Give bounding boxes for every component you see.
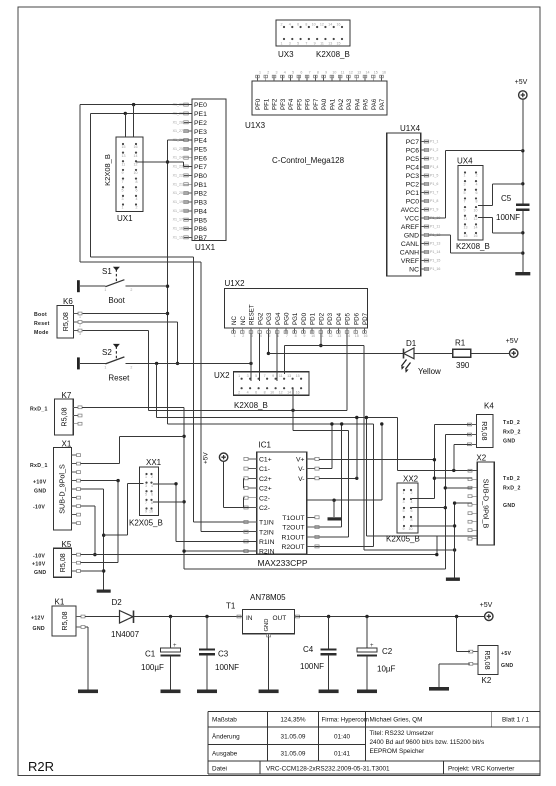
svg-text:PB6: PB6 <box>194 226 207 233</box>
svg-text:11: 11 <box>320 42 324 46</box>
svg-text:-10V: -10V <box>33 505 45 511</box>
svg-text:C3: C3 <box>218 650 229 659</box>
svg-text:15: 15 <box>296 374 300 378</box>
svg-text:PE3: PE3 <box>194 129 207 136</box>
svg-text:2: 2 <box>79 324 81 328</box>
svg-text:+5V: +5V <box>515 79 528 86</box>
svg-text:PB4: PB4 <box>194 208 207 215</box>
svg-text:PE4: PE4 <box>194 138 207 145</box>
svg-text:2400 Bd auf 9600 bit/s bzw. 11: 2400 Bd auf 9600 bit/s bzw. 115200 bit/s <box>370 739 485 746</box>
svg-text:5: 5 <box>145 492 147 496</box>
svg-text:6: 6 <box>255 391 257 395</box>
svg-text:PG1: PG1 <box>292 312 299 325</box>
svg-text:PE5: PE5 <box>194 146 207 153</box>
svg-text:4: 4 <box>284 71 286 75</box>
svg-text:12: 12 <box>320 23 324 27</box>
svg-text:4: 4 <box>289 23 291 27</box>
svg-text:2: 2 <box>238 391 240 395</box>
svg-text:V-: V- <box>298 476 304 483</box>
svg-text:PC5: PC5 <box>406 156 419 163</box>
svg-text:P1_3: P1_3 <box>430 157 438 161</box>
svg-text:K2X05_B: K2X05_B <box>129 519 163 528</box>
svg-text:01:40: 01:40 <box>334 734 350 741</box>
svg-text:AREF: AREF <box>401 224 419 231</box>
svg-text:PE0: PE0 <box>194 102 207 109</box>
svg-text:Änderung: Änderung <box>212 733 240 741</box>
svg-text:R5,08: R5,08 <box>480 421 489 440</box>
svg-text:K2X08_B: K2X08_B <box>316 50 350 59</box>
svg-text:+: + <box>370 643 374 649</box>
svg-text:2: 2 <box>151 475 153 479</box>
svg-text:13: 13 <box>357 71 361 75</box>
svg-text:Datei: Datei <box>212 765 227 772</box>
svg-text:RxD_2: RxD_2 <box>503 430 521 436</box>
svg-text:6: 6 <box>151 492 153 496</box>
svg-text:+5V: +5V <box>480 602 493 609</box>
svg-text:Boot: Boot <box>34 312 47 318</box>
svg-text:OUT: OUT <box>273 615 287 622</box>
svg-text:PC4: PC4 <box>406 165 419 172</box>
svg-text:1: 1 <box>122 206 124 210</box>
svg-text:SUB-D_9Pol_S: SUB-D_9Pol_S <box>58 464 67 514</box>
svg-text:PB0: PB0 <box>194 173 207 180</box>
svg-text:UX3: UX3 <box>278 50 294 59</box>
svg-text:+5V: +5V <box>501 651 512 657</box>
svg-text:K2X08_B: K2X08_B <box>234 401 268 410</box>
svg-text:Titel: RS232 Umsetzer: Titel: RS232 Umsetzer <box>370 730 435 737</box>
svg-text:PB3: PB3 <box>194 200 207 207</box>
svg-text:SUB-D_9Pol_B: SUB-D_9Pol_B <box>482 479 491 529</box>
svg-text:10: 10 <box>474 208 478 212</box>
svg-text:9: 9 <box>314 42 316 46</box>
svg-text:U1X4: U1X4 <box>400 124 421 133</box>
svg-text:D2: D2 <box>112 598 123 607</box>
svg-text:V-: V- <box>298 466 304 473</box>
svg-text:9: 9 <box>464 208 466 212</box>
svg-text:5: 5 <box>122 188 124 192</box>
svg-text:PC7: PC7 <box>406 139 419 146</box>
svg-text:+12V: +12V <box>31 616 45 622</box>
svg-text:PF7: PF7 <box>313 98 320 110</box>
svg-text:PA3: PA3 <box>346 98 353 110</box>
svg-text:4: 4 <box>476 182 478 186</box>
svg-text:K2X05_B: K2X05_B <box>386 535 420 544</box>
svg-text:11: 11 <box>464 217 468 221</box>
svg-text:GND: GND <box>264 619 270 632</box>
svg-text:10µF: 10µF <box>377 665 396 674</box>
svg-text:AN78M05: AN78M05 <box>250 593 286 602</box>
svg-text:3: 3 <box>276 71 278 75</box>
svg-text:PD7: PD7 <box>362 312 369 325</box>
svg-text:GND: GND <box>34 570 46 576</box>
svg-text:C1: C1 <box>145 650 156 659</box>
svg-text:1: 1 <box>104 365 106 369</box>
svg-text:PG2: PG2 <box>257 312 264 325</box>
svg-text:C-Control_Mega128: C-Control_Mega128 <box>272 156 345 165</box>
svg-text:VCC: VCC <box>405 216 419 223</box>
svg-text:P1_6: P1_6 <box>430 182 438 186</box>
svg-text:EEPROM Speicher: EEPROM Speicher <box>370 748 426 755</box>
svg-text:IN: IN <box>246 615 253 622</box>
svg-text:PE2: PE2 <box>194 120 207 127</box>
svg-text:S1: S1 <box>102 267 112 276</box>
svg-text:X1_18: X1_18 <box>173 209 183 213</box>
svg-text:Blatt 1 / 1: Blatt 1 / 1 <box>502 717 529 724</box>
svg-text:X1_25: X1_25 <box>173 147 183 151</box>
svg-text:UX4: UX4 <box>457 157 473 166</box>
svg-text:15: 15 <box>337 42 341 46</box>
svg-text:GND: GND <box>34 489 46 495</box>
svg-text:3: 3 <box>247 374 249 378</box>
svg-text:X1_15: X1_15 <box>173 235 183 239</box>
svg-text:+10V: +10V <box>32 562 46 568</box>
svg-text:14: 14 <box>134 154 138 158</box>
svg-text:IC1: IC1 <box>259 441 272 450</box>
svg-text:+: + <box>173 643 177 649</box>
svg-text:PA7: PA7 <box>379 98 386 110</box>
svg-text:X1_19: X1_19 <box>173 200 183 204</box>
svg-text:C2-: C2- <box>259 505 270 512</box>
svg-text:11: 11 <box>341 71 345 75</box>
svg-text:GND: GND <box>503 503 515 509</box>
svg-text:K6: K6 <box>63 297 73 306</box>
svg-text:K5: K5 <box>62 540 72 549</box>
svg-text:PD6: PD6 <box>353 312 360 325</box>
svg-text:6: 6 <box>300 71 302 75</box>
svg-text:U1X2: U1X2 <box>225 279 246 288</box>
svg-text:2: 2 <box>136 206 138 210</box>
svg-text:U1X1: U1X1 <box>195 243 216 252</box>
svg-text:9: 9 <box>325 71 327 75</box>
svg-text:14: 14 <box>328 23 332 27</box>
svg-text:C2+: C2+ <box>259 486 272 493</box>
svg-text:Yellow: Yellow <box>418 367 441 376</box>
svg-text:2: 2 <box>130 288 132 292</box>
svg-text:100NF: 100NF <box>300 662 324 671</box>
svg-text:1: 1 <box>281 42 283 46</box>
svg-text:12: 12 <box>329 334 333 338</box>
svg-text:TxD_2: TxD_2 <box>503 420 520 426</box>
svg-text:GND: GND <box>503 439 515 445</box>
svg-text:R2R: R2R <box>28 759 54 774</box>
svg-text:390: 390 <box>456 361 470 370</box>
svg-text:2: 2 <box>130 365 132 369</box>
svg-text:PF2: PF2 <box>272 98 279 110</box>
svg-text:P1_16: P1_16 <box>430 267 440 271</box>
svg-text:16: 16 <box>364 334 368 338</box>
svg-text:R1IN: R1IN <box>259 539 275 546</box>
svg-text:15: 15 <box>464 234 468 238</box>
svg-text:R5,08: R5,08 <box>58 553 67 572</box>
svg-text:7: 7 <box>309 71 311 75</box>
svg-text:16: 16 <box>296 391 300 395</box>
svg-text:P1_2: P1_2 <box>430 148 438 152</box>
svg-text:9: 9 <box>303 334 305 338</box>
svg-text:PD3: PD3 <box>327 312 334 325</box>
svg-text:10: 10 <box>134 171 138 175</box>
svg-text:124,35%: 124,35% <box>280 717 306 724</box>
svg-text:8: 8 <box>136 180 138 184</box>
svg-text:PD1: PD1 <box>310 312 317 325</box>
svg-text:8: 8 <box>151 501 153 505</box>
svg-text:PF0: PF0 <box>255 98 262 110</box>
svg-text:11: 11 <box>122 162 126 166</box>
svg-text:PE7: PE7 <box>194 164 207 171</box>
svg-text:PD0: PD0 <box>301 312 308 325</box>
svg-text:P1_4: P1_4 <box>430 165 438 169</box>
svg-text:14: 14 <box>474 226 478 230</box>
svg-text:VREF: VREF <box>401 258 419 265</box>
svg-text:PA6: PA6 <box>371 98 378 110</box>
svg-text:PB1: PB1 <box>194 182 207 189</box>
svg-text:Ausgabe: Ausgabe <box>212 751 238 758</box>
svg-text:16: 16 <box>382 71 386 75</box>
svg-text:3: 3 <box>289 42 291 46</box>
svg-text:01:41: 01:41 <box>334 751 350 758</box>
svg-text:XX1: XX1 <box>146 458 162 467</box>
svg-text:PD2: PD2 <box>318 312 325 325</box>
svg-text:X1_17: X1_17 <box>173 218 183 222</box>
svg-text:5: 5 <box>255 374 257 378</box>
svg-text:6: 6 <box>476 191 478 195</box>
svg-text:Reset: Reset <box>34 321 50 327</box>
svg-text:R1OUT: R1OUT <box>281 535 304 542</box>
svg-text:9: 9 <box>145 510 147 514</box>
svg-text:VRC-CCM128-2xRS232.2009-05-31.: VRC-CCM128-2xRS232.2009-05-31.T3001 <box>266 765 390 772</box>
svg-text:C4: C4 <box>303 645 314 654</box>
svg-text:T1IN: T1IN <box>259 520 274 527</box>
svg-text:12: 12 <box>279 391 283 395</box>
svg-text:7: 7 <box>145 501 147 505</box>
svg-text:15: 15 <box>355 334 359 338</box>
svg-text:T2OUT: T2OUT <box>282 525 304 532</box>
svg-text:14: 14 <box>287 391 291 395</box>
svg-text:1: 1 <box>403 491 405 495</box>
svg-text:Firma: Hypercom: Firma: Hypercom <box>322 717 369 724</box>
svg-text:X1_21: X1_21 <box>173 182 183 186</box>
svg-text:AVCC: AVCC <box>401 207 419 214</box>
svg-text:+10V: +10V <box>33 480 47 486</box>
svg-text:NC: NC <box>240 316 247 325</box>
svg-text:R5,08: R5,08 <box>483 650 492 669</box>
svg-text:X1_27: X1_27 <box>173 129 183 133</box>
svg-text:1: 1 <box>259 71 261 75</box>
svg-text:C1-: C1- <box>259 466 270 473</box>
svg-text:RxD_1: RxD_1 <box>30 463 48 469</box>
svg-text:P1_5: P1_5 <box>430 174 438 178</box>
svg-text:31.05.09: 31.05.09 <box>281 734 306 741</box>
svg-text:X1_16: X1_16 <box>173 227 183 231</box>
svg-text:X1_23: X1_23 <box>173 165 183 169</box>
svg-text:T2IN: T2IN <box>259 529 274 536</box>
svg-text:8: 8 <box>264 391 266 395</box>
svg-text:5: 5 <box>403 509 405 513</box>
svg-text:C1+: C1+ <box>259 457 272 464</box>
svg-text:R5,08: R5,08 <box>60 611 69 630</box>
svg-text:PA5: PA5 <box>363 98 370 110</box>
svg-text:R1: R1 <box>455 339 466 348</box>
svg-text:9: 9 <box>122 171 124 175</box>
svg-text:2: 2 <box>411 491 413 495</box>
svg-text:7: 7 <box>403 518 405 522</box>
svg-text:XX2: XX2 <box>403 475 419 484</box>
svg-text:X1_22: X1_22 <box>173 173 183 177</box>
svg-text:K7: K7 <box>62 391 72 400</box>
svg-text:1: 1 <box>464 174 466 178</box>
svg-text:100µF: 100µF <box>141 663 164 672</box>
svg-text:4: 4 <box>247 391 249 395</box>
svg-text:14: 14 <box>365 71 369 75</box>
svg-text:PD4: PD4 <box>336 312 343 325</box>
svg-text:10: 10 <box>332 71 336 75</box>
svg-text:CANH: CANH <box>400 250 419 257</box>
svg-text:CANL: CANL <box>401 241 419 248</box>
svg-text:P1_14: P1_14 <box>430 250 440 254</box>
svg-text:PG0: PG0 <box>284 312 291 325</box>
svg-text:Projekt: VRC Konverter: Projekt: VRC Konverter <box>448 765 515 772</box>
svg-text:1: 1 <box>234 334 236 338</box>
svg-text:7: 7 <box>305 42 307 46</box>
svg-text:9: 9 <box>272 374 274 378</box>
svg-text:P1_11: P1_11 <box>430 225 440 229</box>
svg-text:1: 1 <box>104 288 106 292</box>
svg-text:3: 3 <box>403 500 405 504</box>
svg-text:3: 3 <box>79 332 81 336</box>
svg-text:+5V: +5V <box>506 338 519 345</box>
svg-text:13: 13 <box>122 154 126 158</box>
svg-text:10: 10 <box>311 334 315 338</box>
svg-text:PF4: PF4 <box>288 98 295 110</box>
svg-text:16: 16 <box>337 23 341 27</box>
svg-text:C2-: C2- <box>259 495 270 502</box>
svg-text:8: 8 <box>295 334 297 338</box>
svg-text:S2: S2 <box>102 348 112 357</box>
svg-text:1: 1 <box>238 374 240 378</box>
svg-text:NC: NC <box>409 267 419 274</box>
svg-text:GND: GND <box>33 626 45 632</box>
svg-text:D1: D1 <box>406 339 417 348</box>
svg-text:X1_24: X1_24 <box>173 156 183 160</box>
svg-text:10: 10 <box>270 391 274 395</box>
svg-text:6: 6 <box>136 188 138 192</box>
svg-text:PB5: PB5 <box>194 217 207 224</box>
svg-text:P1_15: P1_15 <box>430 259 440 263</box>
svg-text:7: 7 <box>464 200 466 204</box>
svg-text:6: 6 <box>297 23 299 27</box>
svg-text:7: 7 <box>264 374 266 378</box>
svg-text:13: 13 <box>287 374 291 378</box>
svg-text:K4: K4 <box>484 402 494 411</box>
svg-text:C2: C2 <box>382 647 393 656</box>
svg-text:15: 15 <box>122 145 126 149</box>
svg-text:PF3: PF3 <box>280 98 287 110</box>
svg-text:X1_20: X1_20 <box>173 191 183 195</box>
svg-text:12: 12 <box>474 217 478 221</box>
svg-text:3: 3 <box>464 182 466 186</box>
svg-text:X2: X2 <box>476 454 486 463</box>
svg-text:NC: NC <box>231 316 238 325</box>
svg-text:K1: K1 <box>55 598 65 607</box>
svg-text:RxD_2: RxD_2 <box>503 486 521 492</box>
svg-text:P1_9: P1_9 <box>430 208 438 212</box>
svg-text:5: 5 <box>292 71 294 75</box>
svg-text:K2: K2 <box>482 676 492 685</box>
svg-text:3: 3 <box>122 197 124 201</box>
svg-text:11: 11 <box>279 374 283 378</box>
svg-text:13: 13 <box>337 334 341 338</box>
svg-text:8: 8 <box>317 71 319 75</box>
svg-text:RESET: RESET <box>249 304 256 325</box>
svg-text:12: 12 <box>349 71 353 75</box>
svg-text:T1: T1 <box>226 602 236 611</box>
svg-text:13: 13 <box>464 226 468 230</box>
svg-text:PF5: PF5 <box>296 98 303 110</box>
svg-text:5: 5 <box>297 42 299 46</box>
svg-text:PG3: PG3 <box>266 312 273 325</box>
svg-text:PC3: PC3 <box>406 173 419 180</box>
svg-text:P1_1: P1_1 <box>430 140 438 144</box>
svg-text:UX2: UX2 <box>214 371 230 380</box>
svg-text:8: 8 <box>476 200 478 204</box>
svg-text:8: 8 <box>305 23 307 27</box>
svg-text:X1: X1 <box>62 440 72 449</box>
svg-text:R2OUT: R2OUT <box>281 544 304 551</box>
svg-text:PF6: PF6 <box>305 98 312 110</box>
svg-text:TxD_2: TxD_2 <box>503 476 520 482</box>
svg-text:K2X08_B: K2X08_B <box>456 242 490 251</box>
svg-text:9: 9 <box>403 527 405 531</box>
svg-text:R5,08: R5,08 <box>61 312 70 331</box>
svg-text:GND: GND <box>501 663 513 669</box>
svg-text:10: 10 <box>409 527 413 531</box>
svg-text:P1_7: P1_7 <box>430 191 438 195</box>
svg-text:PD5: PD5 <box>345 312 352 325</box>
svg-text:Michael Gries, QM: Michael Gries, QM <box>370 717 423 724</box>
svg-text:Boot: Boot <box>108 296 125 305</box>
svg-text:PA2: PA2 <box>338 98 345 110</box>
svg-text:PB7: PB7 <box>194 235 207 242</box>
svg-text:PA0: PA0 <box>321 98 328 110</box>
svg-text:1: 1 <box>145 475 147 479</box>
svg-text:4: 4 <box>411 500 413 504</box>
svg-text:10: 10 <box>312 23 316 27</box>
svg-text:13: 13 <box>328 42 332 46</box>
svg-text:8: 8 <box>411 518 413 522</box>
svg-text:U1X3: U1X3 <box>245 121 266 130</box>
svg-text:PF1: PF1 <box>263 98 270 110</box>
svg-text:2: 2 <box>281 23 283 27</box>
svg-text:10: 10 <box>149 510 153 514</box>
svg-text:T1OUT: T1OUT <box>282 515 304 522</box>
svg-text:16: 16 <box>474 234 478 238</box>
svg-text:V+: V+ <box>296 457 305 464</box>
svg-text:PC0: PC0 <box>406 199 419 206</box>
svg-text:7: 7 <box>122 180 124 184</box>
svg-text:Maßstab: Maßstab <box>212 717 237 724</box>
svg-text:31.05.09: 31.05.09 <box>281 751 306 758</box>
svg-text:R5,08: R5,08 <box>60 407 69 426</box>
svg-text:4: 4 <box>151 484 153 488</box>
svg-text:MAX233CPP: MAX233CPP <box>258 558 308 568</box>
svg-text:16: 16 <box>134 145 138 149</box>
svg-text:12: 12 <box>134 162 138 166</box>
svg-text:PA1: PA1 <box>330 98 337 110</box>
svg-text:7: 7 <box>286 334 288 338</box>
svg-text:UX1: UX1 <box>117 214 133 223</box>
svg-text:PC2: PC2 <box>406 182 419 189</box>
svg-text:PC1: PC1 <box>406 190 419 197</box>
svg-text:3: 3 <box>145 484 147 488</box>
